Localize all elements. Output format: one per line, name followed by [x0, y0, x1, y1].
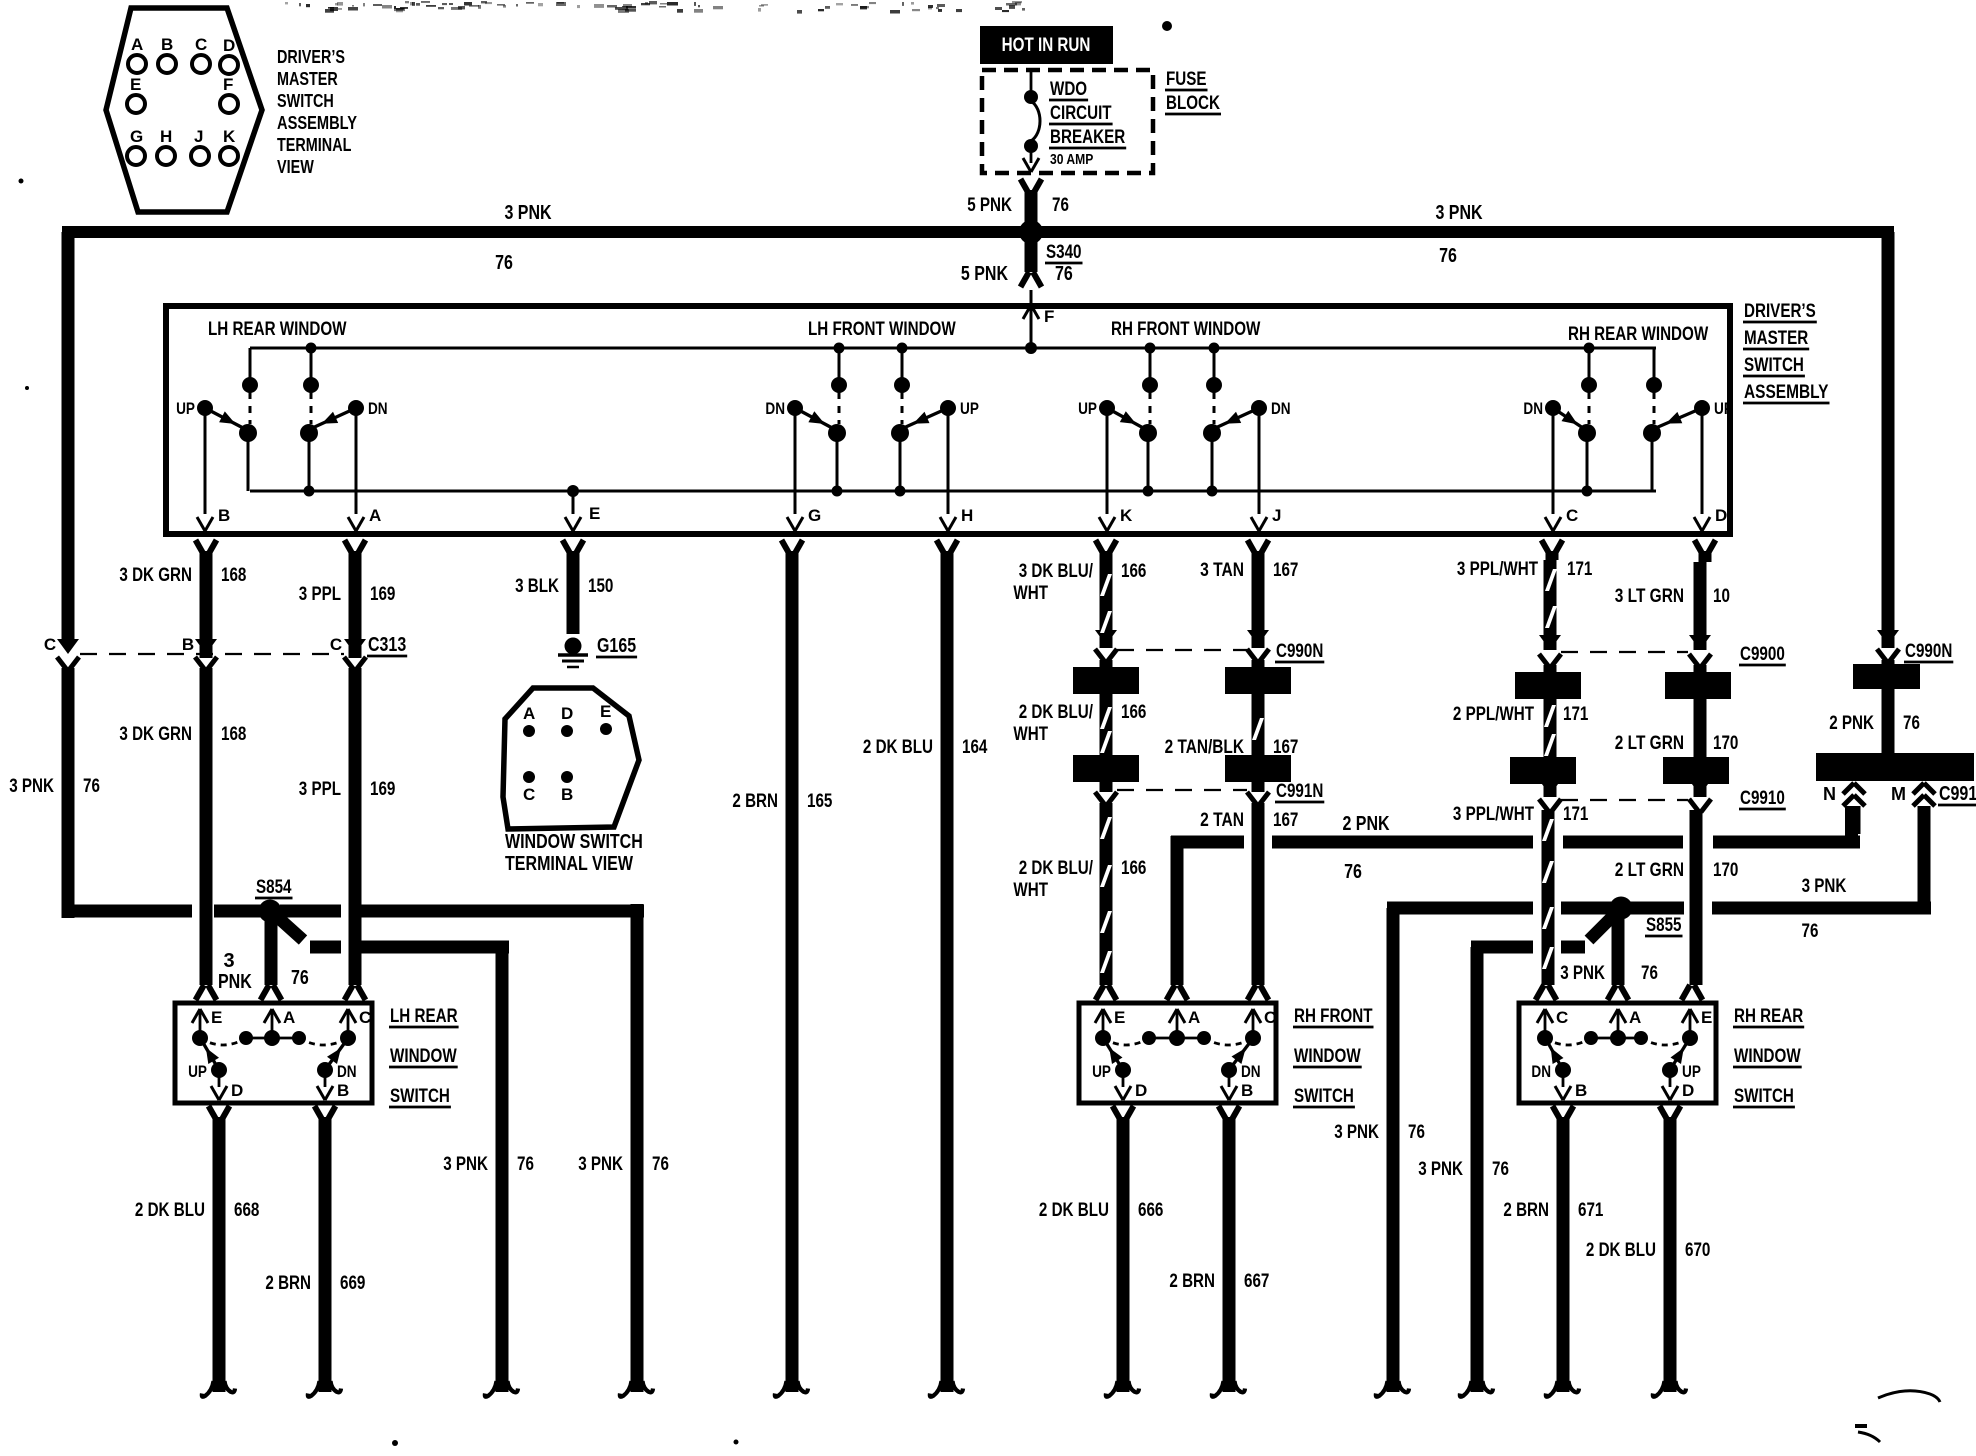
svg-text:667: 667: [1244, 1271, 1269, 1292]
svg-text:J: J: [1272, 506, 1281, 525]
svg-text:170: 170: [1713, 733, 1738, 754]
svg-text:DN: DN: [1241, 1062, 1261, 1081]
svg-text:2 PNK: 2 PNK: [1829, 713, 1874, 734]
svg-text:C: C: [330, 635, 342, 654]
svg-text:DN: DN: [1523, 399, 1543, 418]
svg-text:B: B: [561, 785, 573, 804]
svg-text:167: 167: [1273, 737, 1298, 758]
svg-text:C: C: [1566, 506, 1578, 525]
svg-text:G: G: [808, 506, 821, 525]
svg-text:S855: S855: [1646, 915, 1682, 936]
svg-text:76: 76: [83, 776, 100, 797]
svg-text:170: 170: [1713, 860, 1738, 881]
svg-text:171: 171: [1563, 704, 1589, 725]
svg-text:DN: DN: [368, 399, 388, 418]
svg-text:2 BRN: 2 BRN: [1169, 1271, 1215, 1292]
svg-text:3 PNK: 3 PNK: [443, 1154, 488, 1175]
svg-text:K: K: [223, 127, 236, 146]
svg-text:SWITCH: SWITCH: [1734, 1086, 1794, 1107]
svg-text:B: B: [337, 1081, 349, 1100]
svg-text:3 PNK: 3 PNK: [504, 202, 552, 224]
svg-text:RH FRONT: RH FRONT: [1294, 1006, 1373, 1027]
svg-text:3 PNK: 3 PNK: [1418, 1159, 1463, 1180]
svg-text:C991N: C991N: [1276, 781, 1323, 802]
svg-text:666: 666: [1138, 1200, 1163, 1221]
svg-text:UP: UP: [1714, 399, 1733, 418]
svg-text:3 PPL: 3 PPL: [299, 584, 342, 605]
svg-text:D: D: [1682, 1081, 1694, 1100]
svg-text:C9900: C9900: [1740, 644, 1785, 665]
svg-text:M: M: [1891, 784, 1906, 804]
svg-text:D: D: [561, 704, 573, 723]
svg-text:C990N: C990N: [1905, 641, 1952, 662]
svg-text:C: C: [1556, 1008, 1568, 1027]
svg-text:MASTER: MASTER: [277, 69, 338, 89]
svg-text:76: 76: [1903, 713, 1920, 734]
svg-text:76: 76: [1055, 263, 1073, 285]
svg-text:H: H: [160, 127, 172, 146]
svg-text:671: 671: [1578, 1200, 1604, 1221]
svg-text:RH REAR WINDOW: RH REAR WINDOW: [1568, 324, 1708, 345]
svg-text:2 BRN: 2 BRN: [265, 1273, 311, 1294]
svg-text:3 LT GRN: 3 LT GRN: [1615, 586, 1684, 607]
svg-text:A: A: [369, 506, 381, 525]
svg-text:3 DK GRN: 3 DK GRN: [119, 724, 192, 745]
svg-text:169: 169: [370, 584, 395, 605]
svg-text:76: 76: [1052, 195, 1069, 216]
svg-text:2 LT GRN: 2 LT GRN: [1615, 860, 1684, 881]
svg-text:5 PNK: 5 PNK: [967, 195, 1012, 216]
svg-text:F: F: [223, 75, 233, 94]
svg-text:3 PNK: 3 PNK: [1334, 1122, 1379, 1143]
svg-text:10: 10: [1713, 586, 1730, 607]
svg-text:E: E: [600, 702, 611, 721]
svg-text:B: B: [182, 635, 194, 654]
svg-text:DN: DN: [765, 399, 785, 418]
svg-text:3 PPL/WHT: 3 PPL/WHT: [1457, 559, 1538, 580]
svg-text:LH REAR: LH REAR: [390, 1006, 458, 1027]
svg-text:2 DK BLU/: 2 DK BLU/: [1019, 702, 1094, 723]
svg-text:UP: UP: [1092, 1062, 1111, 1081]
svg-text:G: G: [130, 127, 143, 146]
svg-text:F: F: [1044, 307, 1054, 326]
svg-text:2 TAN/BLK: 2 TAN/BLK: [1165, 737, 1245, 758]
svg-text:76: 76: [1439, 245, 1457, 267]
svg-text:WHT: WHT: [1013, 880, 1048, 901]
svg-text:J: J: [194, 127, 203, 146]
svg-text:TERMINAL VIEW: TERMINAL VIEW: [505, 853, 633, 875]
svg-text:670: 670: [1685, 1240, 1710, 1261]
svg-text:H: H: [961, 506, 973, 525]
svg-text:C9910: C9910: [1740, 788, 1785, 809]
svg-text:MASTER: MASTER: [1744, 328, 1808, 349]
svg-text:RH REAR: RH REAR: [1734, 1006, 1803, 1027]
svg-text:VIEW: VIEW: [277, 157, 314, 177]
svg-text:S340: S340: [1046, 242, 1082, 263]
svg-text:D: D: [231, 1081, 243, 1100]
svg-text:A: A: [1188, 1008, 1200, 1027]
svg-text:2 DK BLU: 2 DK BLU: [863, 737, 933, 758]
svg-text:D: D: [1135, 1081, 1147, 1100]
svg-text:3 PNK: 3 PNK: [578, 1154, 623, 1175]
svg-text:168: 168: [221, 724, 246, 745]
svg-text:150: 150: [588, 576, 613, 597]
svg-text:164: 164: [962, 737, 988, 758]
svg-text:168: 168: [221, 565, 246, 586]
svg-text:C: C: [523, 785, 535, 804]
svg-text:CIRCUIT: CIRCUIT: [1050, 103, 1112, 124]
svg-text:WHT: WHT: [1013, 583, 1048, 604]
svg-text:LH FRONT WINDOW: LH FRONT WINDOW: [808, 319, 956, 340]
svg-text:LH REAR WINDOW: LH REAR WINDOW: [208, 319, 347, 340]
svg-text:3 PNK: 3 PNK: [1560, 963, 1605, 984]
svg-text:C313: C313: [368, 634, 406, 656]
svg-text:ASSEMBLY: ASSEMBLY: [277, 113, 357, 133]
svg-text:30 AMP: 30 AMP: [1050, 151, 1093, 168]
svg-text:K: K: [1120, 506, 1133, 525]
svg-text:A: A: [131, 35, 143, 54]
svg-text:C: C: [1264, 1008, 1276, 1027]
svg-text:B: B: [161, 35, 173, 54]
svg-text:C: C: [195, 35, 207, 54]
svg-text:TERMINAL: TERMINAL: [277, 135, 351, 155]
svg-text:C: C: [44, 635, 56, 654]
svg-text:76: 76: [517, 1154, 534, 1175]
svg-text:2 LT GRN: 2 LT GRN: [1615, 733, 1684, 754]
svg-text:C990N: C990N: [1276, 641, 1323, 662]
svg-text:D: D: [1715, 506, 1727, 525]
svg-text:WDO: WDO: [1050, 79, 1087, 100]
svg-text:E: E: [589, 504, 600, 523]
svg-text:S854: S854: [256, 877, 292, 898]
svg-text:166: 166: [1121, 858, 1146, 879]
svg-text:76: 76: [1641, 963, 1658, 984]
svg-text:DN: DN: [337, 1062, 357, 1081]
svg-text:2 BRN: 2 BRN: [732, 791, 778, 812]
svg-text:D: D: [223, 36, 235, 55]
svg-text:B: B: [218, 506, 230, 525]
svg-text:N: N: [1823, 784, 1836, 804]
svg-text:3 PNK: 3 PNK: [1435, 202, 1483, 224]
svg-text:DN: DN: [1271, 399, 1291, 418]
svg-text:DN: DN: [1531, 1062, 1551, 1081]
svg-text:SWITCH: SWITCH: [390, 1086, 450, 1107]
svg-text:3 PPL: 3 PPL: [299, 779, 342, 800]
svg-text:RH FRONT WINDOW: RH FRONT WINDOW: [1111, 319, 1260, 340]
svg-text:669: 669: [340, 1273, 365, 1294]
svg-text:2 DK BLU: 2 DK BLU: [1586, 1240, 1656, 1261]
svg-text:167: 167: [1273, 810, 1298, 831]
svg-text:166: 166: [1121, 702, 1146, 723]
svg-text:3 PPL/WHT: 3 PPL/WHT: [1453, 804, 1534, 825]
svg-text:76: 76: [291, 967, 309, 989]
svg-text:3 PNK: 3 PNK: [1802, 876, 1847, 897]
svg-text:A: A: [283, 1008, 295, 1027]
svg-text:C: C: [359, 1008, 371, 1027]
svg-text:76: 76: [1408, 1122, 1425, 1143]
svg-text:3 BLK: 3 BLK: [515, 576, 559, 597]
svg-text:76: 76: [1802, 921, 1819, 942]
svg-text:5 PNK: 5 PNK: [961, 263, 1009, 285]
svg-text:UP: UP: [1682, 1062, 1701, 1081]
svg-text:B: B: [1575, 1081, 1587, 1100]
svg-text:B: B: [1241, 1081, 1253, 1100]
svg-text:E: E: [211, 1008, 222, 1027]
svg-text:166: 166: [1121, 561, 1146, 582]
svg-text:DRIVER’S: DRIVER’S: [1744, 301, 1816, 322]
svg-text:PNK: PNK: [218, 971, 252, 993]
svg-text:G165: G165: [597, 635, 636, 657]
svg-text:DRIVER’S: DRIVER’S: [277, 47, 345, 67]
svg-text:3: 3: [223, 950, 234, 972]
svg-text:3 TAN: 3 TAN: [1200, 560, 1244, 581]
svg-text:2 DK BLU: 2 DK BLU: [1039, 1200, 1109, 1221]
svg-text:2 BRN: 2 BRN: [1503, 1200, 1549, 1221]
svg-text:FUSE: FUSE: [1166, 69, 1207, 90]
svg-text:668: 668: [234, 1200, 259, 1221]
svg-text:BREAKER: BREAKER: [1050, 127, 1125, 148]
svg-text:171: 171: [1563, 804, 1589, 825]
svg-text:171: 171: [1567, 559, 1593, 580]
svg-text:E: E: [130, 75, 141, 94]
svg-text:SWITCH: SWITCH: [277, 91, 334, 111]
svg-text:167: 167: [1273, 560, 1298, 581]
svg-text:A: A: [1629, 1008, 1641, 1027]
svg-text:BLOCK: BLOCK: [1166, 93, 1220, 114]
svg-text:3 DK BLU/: 3 DK BLU/: [1019, 561, 1094, 582]
svg-text:WINDOW SWITCH: WINDOW SWITCH: [505, 831, 643, 853]
svg-text:76: 76: [652, 1154, 669, 1175]
svg-text:2 DK BLU/: 2 DK BLU/: [1019, 858, 1094, 879]
svg-text:A: A: [523, 704, 535, 723]
svg-text:SWITCH: SWITCH: [1294, 1086, 1354, 1107]
svg-text:3 DK GRN: 3 DK GRN: [119, 565, 192, 586]
svg-text:76: 76: [495, 252, 513, 274]
svg-text:2 PNK: 2 PNK: [1342, 813, 1390, 835]
svg-text:WHT: WHT: [1013, 724, 1048, 745]
svg-text:2 TAN: 2 TAN: [1200, 810, 1244, 831]
svg-text:UP: UP: [188, 1062, 207, 1081]
svg-text:UP: UP: [960, 399, 979, 418]
svg-text:WINDOW: WINDOW: [1734, 1046, 1801, 1067]
svg-text:169: 169: [370, 779, 395, 800]
svg-text:UP: UP: [1078, 399, 1097, 418]
svg-text:HOT IN RUN: HOT IN RUN: [1002, 35, 1091, 56]
svg-text:E: E: [1701, 1008, 1712, 1027]
svg-text:E: E: [1114, 1008, 1125, 1027]
svg-text:3 PNK: 3 PNK: [9, 776, 54, 797]
svg-text:165: 165: [807, 791, 833, 812]
svg-text:C991: C991: [1939, 783, 1976, 805]
svg-text:76: 76: [1492, 1159, 1509, 1180]
svg-text:76: 76: [1344, 861, 1362, 883]
svg-text:SWITCH: SWITCH: [1744, 355, 1804, 376]
svg-text:ASSEMBLY: ASSEMBLY: [1744, 382, 1829, 403]
svg-text:WINDOW: WINDOW: [390, 1046, 457, 1067]
svg-text:WINDOW: WINDOW: [1294, 1046, 1361, 1067]
svg-text:2 DK BLU: 2 DK BLU: [135, 1200, 205, 1221]
svg-text:UP: UP: [176, 399, 195, 418]
svg-text:2 PPL/WHT: 2 PPL/WHT: [1453, 704, 1534, 725]
